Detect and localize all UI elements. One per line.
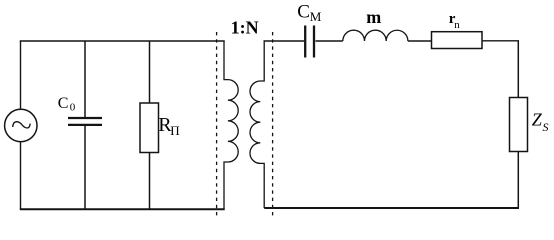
svg-text:C: C — [58, 95, 69, 112]
wire: CM to inductor — [316, 40, 343, 42]
wire: inductor to rn — [408, 40, 432, 42]
label C0 — [58, 95, 76, 113]
dashed boundary line right — [272, 32, 274, 216]
resistor rn box — [432, 32, 483, 49]
wire: bottom rail of primary circuit — [20, 208, 225, 210]
svg-text:C: C — [297, 2, 310, 23]
label RP — [158, 114, 179, 138]
capacitor C0 — [68, 118, 102, 125]
transformer secondary winding L2 — [250, 41, 264, 208]
svg-text:Π: Π — [170, 123, 179, 138]
label rn — [449, 11, 461, 31]
load ZS box — [510, 98, 528, 152]
dashed boundary line left — [216, 32, 218, 216]
wire: rn to right corner — [482, 40, 519, 42]
capacitor CM — [305, 26, 314, 58]
wire: top rail of primary circuit — [20, 40, 225, 42]
svg-text:1:N: 1:N — [231, 17, 259, 37]
svg-text:0: 0 — [70, 102, 76, 114]
wire: R branch lower — [149, 153, 151, 210]
wire: right vertical upper — [517, 41, 519, 98]
wire: C0 branch lower — [84, 126, 86, 210]
wire: right vertical lower — [517, 152, 519, 209]
wire: left vertical top (source to top rail) — [20, 41, 22, 109]
label CM — [297, 2, 322, 24]
svg-text:Z: Z — [532, 110, 543, 130]
transformer primary winding L1 — [224, 41, 238, 209]
svg-text:S: S — [543, 120, 549, 134]
wire: bottom rail of secondary circuit — [264, 207, 519, 209]
label ZS — [532, 110, 549, 135]
label 1:N — [231, 17, 259, 37]
svg-text:n: n — [454, 19, 460, 31]
AC source G1 — [5, 109, 37, 141]
wire: secondary top to CM — [264, 40, 305, 42]
resistor RP box — [140, 103, 159, 153]
inductor m — [343, 30, 408, 41]
wire: R branch upper — [149, 41, 151, 103]
svg-text:M: M — [310, 9, 322, 24]
wire: C0 branch upper — [84, 41, 86, 117]
wire: left vertical bottom (source to bottom rail) — [20, 142, 22, 210]
svg-text:m: m — [366, 7, 381, 27]
label m — [366, 7, 381, 27]
